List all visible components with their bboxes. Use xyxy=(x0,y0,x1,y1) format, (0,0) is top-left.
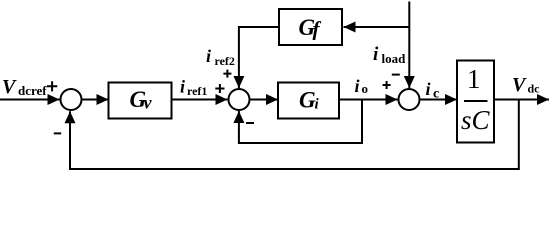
svg-text:load: load xyxy=(382,51,407,66)
svg-text:o: o xyxy=(362,81,369,96)
svg-text:sC: sC xyxy=(461,105,491,135)
svg-text:i: i xyxy=(180,77,185,97)
svg-text:ref1: ref1 xyxy=(187,84,207,98)
svg-text:v: v xyxy=(144,93,153,113)
svg-text:i: i xyxy=(373,44,379,65)
svg-text:V: V xyxy=(2,76,17,98)
svg-text:i: i xyxy=(206,46,211,66)
svg-text:1: 1 xyxy=(467,64,481,94)
svg-text:i: i xyxy=(426,79,431,99)
svg-text:dc: dc xyxy=(528,82,541,96)
svg-text:V: V xyxy=(512,74,527,96)
svg-text:ref2: ref2 xyxy=(215,54,235,68)
svg-text:c: c xyxy=(433,87,439,102)
svg-text:G: G xyxy=(299,88,316,113)
svg-text:dcref: dcref xyxy=(18,83,47,98)
svg-text:i: i xyxy=(355,76,360,96)
